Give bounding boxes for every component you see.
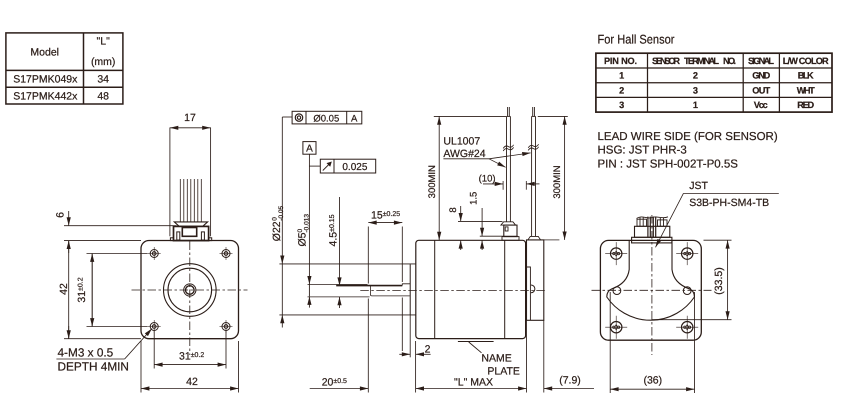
svg-text:2: 2 [693,71,698,81]
svg-text:DEPTH 4MIN: DEPTH 4MIN [58,359,129,373]
svg-text:2: 2 [619,85,624,95]
svg-text:-0.05: -0.05 [278,205,285,220]
svg-text:48: 48 [97,90,109,102]
svg-text:"L" MAX: "L" MAX [454,377,493,389]
svg-text:-0.013: -0.013 [304,214,311,233]
svg-text:42: 42 [58,283,70,295]
svg-text:1: 1 [693,100,698,110]
svg-text:WHT: WHT [797,85,815,95]
svg-text:4-M3 x 0.5: 4-M3 x 0.5 [58,346,114,360]
svg-text:31±0.2: 31±0.2 [179,351,204,363]
svg-text:3: 3 [619,100,624,110]
svg-text:4.5±0.15: 4.5±0.15 [328,214,340,246]
svg-text:S3B-PH-SM4-TB: S3B-PH-SM4-TB [689,197,769,209]
svg-text:(mm): (mm) [91,56,116,68]
svg-text:PLATE: PLATE [487,365,519,377]
svg-text:A: A [306,144,313,155]
svg-text:17: 17 [184,112,196,124]
svg-text:L/W COLOR: L/W COLOR [783,56,829,66]
svg-text:Model: Model [30,46,59,58]
svg-text:BLK: BLK [798,71,814,81]
svg-text:GND: GND [752,71,770,81]
svg-text:(36): (36) [643,375,662,387]
svg-text:PIN : JST SPH-002T-P0.5S: PIN : JST SPH-002T-P0.5S [598,159,739,171]
svg-text:34: 34 [97,74,109,86]
svg-text:"L": "L" [97,35,111,47]
svg-text:Ø0.05: Ø0.05 [313,113,339,124]
svg-text:OUT: OUT [752,85,770,95]
svg-text:UL1007: UL1007 [443,136,480,148]
svg-text:42: 42 [186,376,198,388]
svg-text:3: 3 [693,85,698,95]
svg-text:2: 2 [425,344,431,356]
svg-text:LEAD WIRE SIDE (FOR SENSOR): LEAD WIRE SIDE (FOR SENSOR) [598,131,778,143]
svg-text:1.5: 1.5 [469,192,480,205]
svg-text:Ø5: Ø5 [297,232,309,246]
svg-text:Vcc: Vcc [754,100,768,110]
svg-text:A: A [351,113,358,124]
svg-text:NO.: NO. [723,56,736,66]
svg-text:8: 8 [448,207,459,212]
svg-text:6: 6 [54,212,66,218]
svg-text:SENSOR: SENSOR [652,56,680,66]
svg-text:(33.5): (33.5) [713,267,725,294]
svg-text:300MIN: 300MIN [552,165,563,198]
svg-text:15±0.25: 15±0.25 [371,210,400,222]
svg-text:Ø22: Ø22 [271,221,283,241]
svg-text:JST: JST [689,180,708,192]
svg-text:31±0.2: 31±0.2 [76,277,88,302]
svg-text:For Hall Sensor: For Hall Sensor [598,33,675,47]
svg-text:SIGNAL: SIGNAL [748,56,774,66]
svg-text:300MIN: 300MIN [427,165,438,198]
svg-text:NAME: NAME [481,352,511,364]
svg-text:(10): (10) [479,174,496,185]
svg-text:20±0.5: 20±0.5 [322,377,347,389]
svg-text:S17PMK049x: S17PMK049x [13,74,78,86]
svg-text:RED: RED [797,100,814,110]
svg-text:TERMINAL: TERMINAL [684,56,719,66]
svg-text:1: 1 [619,71,624,81]
svg-text:0.025: 0.025 [342,162,367,173]
svg-text:HSG: JST PHR-3: HSG: JST PHR-3 [598,145,687,157]
svg-text:PIN NO.: PIN NO. [604,56,637,66]
svg-text:S17PMK442x: S17PMK442x [13,90,78,102]
svg-text:(7.9): (7.9) [559,375,581,387]
svg-text:AWG#24: AWG#24 [443,148,485,160]
